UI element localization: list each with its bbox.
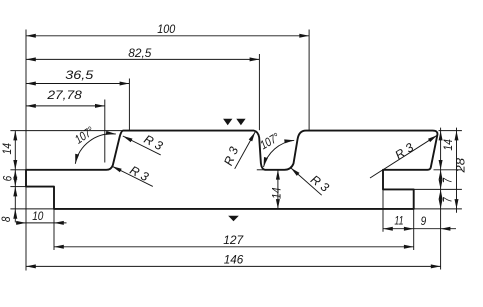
svg-text:14: 14 [0,143,14,155]
svg-text:28: 28 [454,158,468,174]
svg-text:14: 14 [441,139,455,151]
extension line step right [414,188,462,190]
dimension 27,78 [26,105,105,107]
svg-text:10: 10 [32,209,43,223]
dimension 11 [383,228,414,230]
svg-text:82,5: 82,5 [128,46,151,60]
radius leader R3 groove bottom right [291,168,322,195]
dim line left 14-6-8 [14,131,16,223]
angle dimension 107 deg arc groove [264,140,295,167]
dimension 14 right [439,131,443,141]
dimension 14 groove depth [276,170,280,180]
dimension 7 upper right [439,170,443,180]
svg-text:146: 146 [224,252,244,266]
dimension 127 [54,246,414,248]
svg-text:7: 7 [441,197,455,203]
svg-text:27,78: 27,78 [46,88,82,102]
extension line top right [439,130,462,132]
svg-text:14: 14 [269,187,283,199]
dimension 8 left [13,187,17,197]
dim/extension line right 14-7-7 [440,128,442,270]
dim line groove depth 14 [277,170,279,209]
dimension 7 lower right [439,189,443,199]
dimension 6 left [13,170,17,180]
angle dimension 107 deg arc left [75,134,116,164]
dimension 14 left [13,131,17,141]
svg-text:9: 9 [421,214,427,228]
dim line 28 [456,128,458,213]
extension line left edge upper [25,30,27,170]
dimension 28 right [455,131,459,141]
svg-text:7: 7 [441,177,455,183]
extension stub groove bottom [257,169,266,171]
dimension 82,5 [26,58,259,60]
svg-text:8: 8 [0,216,13,222]
dimension 36,5 [26,83,129,85]
extension line shoulder right [434,169,462,171]
extension line notch vertical [53,209,55,250]
radius leader R3 groove left top [235,132,256,169]
dimension 146 [26,265,441,267]
extension line bottom right [414,208,462,210]
extension line left edge lower [25,187,27,271]
radius leader R3 left slope top [123,136,161,155]
svg-text:11: 11 [394,213,403,227]
extension line lip top left [10,169,26,171]
extension line 100 right [308,30,310,131]
extension line top surface left [10,130,123,132]
board profile outline (thick) [26,131,437,209]
surface finish mark triangles top [223,119,232,125]
extension line bottom-right corner vertical [413,209,415,250]
svg-text:127: 127 [223,233,244,247]
dimension 10 (outside arrows) [16,222,67,224]
extension line 36.5 right [128,79,130,131]
svg-text:6: 6 [1,176,15,182]
radius leader R3 left slope bottom [112,166,153,186]
dimension 9 (outside arrows) [414,228,456,230]
extension line 82.5 right [258,54,260,130]
svg-text:100: 100 [157,22,175,36]
extension line bottom left [10,208,54,210]
dimension 100 [26,35,309,37]
extension line notch top left [10,186,26,188]
extension line 27.78 right [104,100,106,163]
extension line step vertical [382,189,384,231]
surface finish mark triangle bottom [228,216,239,221]
svg-text:36,5: 36,5 [65,68,93,82]
radius leader R3 right tip [370,135,437,178]
